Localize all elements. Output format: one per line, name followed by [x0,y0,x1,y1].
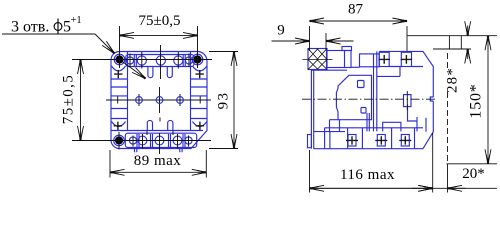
bottom slot 1 [147,120,152,131]
top-right block outline [379,51,433,148]
block A tab [342,47,352,51]
dim 89 exts [110,150,206,178]
center dash-dot line [302,98,437,100]
armature steps [383,122,401,131]
svg-text:75±0,5: 75±0,5 [139,13,181,29]
panel plane dashed [447,53,449,68]
svg-text:150*: 150* [468,83,485,118]
dim 87 line [310,20,359,22]
rail hatch [303,49,333,70]
central vertical bottom [159,133,161,154]
leader second arrow [120,60,146,79]
right channel rungs [191,79,208,119]
left channel inner wall [127,52,129,131]
left edge inner [313,70,315,149]
bottom strip top edge [111,130,203,132]
left tab [308,135,312,148]
central vertical top [160,45,162,79]
svg-text:9: 9 [277,23,285,39]
small rect crosshair [406,91,408,110]
top terminal screw circles [126,57,133,64]
top edge left module [311,69,347,71]
dim 87 exts [310,26,408,51]
bottom row centerline [72,140,211,142]
blue ring hole TL [114,54,125,65]
blue ring hole BL [114,135,125,146]
bottom ref line [447,163,498,165]
svg-text:93: 93 [216,92,232,110]
right channel inner wall [190,52,192,131]
feet below body [135,149,183,153]
bottom strip dividers [137,134,185,147]
dim 75 left line [80,60,82,100]
dim 28 arrows [467,26,469,36]
bottom screw rects [348,135,356,147]
dim 75 top line [120,34,159,36]
core square [361,108,366,114]
dim 116 arrows [310,187,371,189]
pedestal step [330,120,339,132]
screw pocket 1 [379,52,389,66]
bottom strip [314,128,423,149]
dim 9 ext [325,33,327,50]
blockA bottom join [351,66,360,68]
left channel rungs [111,79,128,119]
mounting hole BL filled [115,136,123,144]
left edge outer [310,70,312,149]
svg-text:87: 87 [348,2,364,18]
block A divider [344,51,346,68]
svg-text:+1: +1 [71,15,82,26]
plus screws in channels [114,70,204,130]
svg-text:116 max: 116 max [340,167,395,183]
channel center ticks [118,97,201,104]
dome top-right [193,66,208,71]
dim 116 exts [310,133,433,193]
mounting hole TR filled [193,55,201,63]
coil knob [358,81,365,88]
inner steps [377,67,423,77]
right view plus screws top [346,55,412,145]
hole TR vertical [197,26,199,68]
dim 89 line [110,171,158,173]
dome top-left [112,66,126,71]
dim 93 exts [209,52,238,149]
bottom slot 2 [168,120,173,131]
dome bottom-right [193,122,208,127]
dim 150 line [487,36,489,99]
dim 9 arrows [272,40,310,42]
top strip dividers [134,55,185,67]
hole BL vertical [118,132,120,150]
top slot 2 [167,67,172,78]
top row centerline [72,59,212,61]
screw pocket 2 [401,52,411,66]
slot ticks [147,118,173,136]
svg-text:89 max: 89 max [134,153,182,169]
hole TL vertical [119,26,121,68]
middle row centerline [106,99,211,101]
block A2 [360,54,380,67]
bottom terminal screw circles [129,137,136,144]
middle row circles [136,97,184,104]
top slot 1 [148,67,153,78]
blue ring hole TR [192,54,203,65]
diameter symbol [54,19,62,35]
label underline [2,33,95,35]
top ref line [407,35,497,37]
dome bottom-left [112,122,126,127]
coil feet [340,113,370,131]
top terminal strip [126,55,194,67]
block A [327,51,352,68]
small table verticals [449,36,461,49]
dim 93 line [233,52,235,101]
second ref line [433,48,471,50]
dim 20 arrows [412,187,433,189]
svg-text:75±0,5: 75±0,5 [61,74,77,124]
mounting hole TL filled [115,55,123,63]
centerlines and screw crosshairs (black thin) [72,26,212,154]
svg-text:20*: 20* [462,166,485,182]
leader to hole [95,34,115,54]
bottom terminal strip [125,133,196,147]
svg-text:3 отв.: 3 отв. [11,19,49,36]
small rect on centerline [404,95,412,107]
module split lines [374,51,377,131]
bottom screws verticals [133,134,189,149]
coil block [336,75,371,119]
rail centerline [303,59,333,61]
bottom dim line [310,187,498,189]
panel plane solid bottom [447,164,449,193]
middle circles verticals [139,87,180,113]
top screws verticals [130,52,189,69]
svg-text:28*: 28* [445,67,461,93]
right notch [430,97,433,101]
body outline [111,52,207,149]
strip verticals [325,128,415,149]
rail block [308,49,327,70]
